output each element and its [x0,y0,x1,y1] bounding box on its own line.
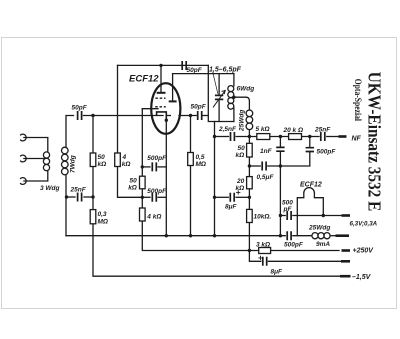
svg-text:kΩ: kΩ [98,161,107,168]
svg-text:3 kΩ: 3 kΩ [256,242,270,249]
svg-text:8μF: 8μF [271,269,284,276]
svg-text:50pF: 50pF [187,67,203,74]
svg-text:5 kΩ: 5 kΩ [256,126,270,133]
svg-text:kΩ: kΩ [122,161,131,168]
svg-text:kΩ: kΩ [236,152,245,159]
svg-text:25Wdg: 25Wdg [239,110,246,132]
svg-text:+: + [258,253,263,263]
svg-text:25nF: 25nF [70,187,87,194]
svg-text:500pF: 500pF [147,188,167,195]
svg-text:+: + [236,187,241,197]
svg-text:25Wdg: 25Wdg [308,225,330,232]
svg-text:7Wdg: 7Wdg [70,155,77,173]
svg-text:UKW-Einsatz 3532 E: UKW-Einsatz 3532 E [364,72,384,212]
svg-text:0,5: 0,5 [196,154,205,161]
svg-text:50: 50 [130,178,138,185]
svg-text:ECF12: ECF12 [300,182,322,189]
svg-text:kΩ: kΩ [128,185,137,192]
svg-text:25nF: 25nF [314,127,331,134]
svg-text:1,5–6,5pF: 1,5–6,5pF [209,67,242,74]
svg-text:6Wdg: 6Wdg [237,86,255,93]
svg-text:+250V: +250V [353,248,375,255]
svg-text:MΩ: MΩ [196,161,207,168]
svg-text:500pF: 500pF [284,242,304,249]
svg-text:500pF: 500pF [317,149,337,156]
svg-text:8μF: 8μF [225,204,238,211]
svg-text:10kΩ.: 10kΩ. [254,214,272,221]
svg-text:–1,5V: –1,5V [352,274,372,281]
svg-text:50pF: 50pF [72,105,88,112]
svg-text:4: 4 [122,154,127,161]
svg-text:9mA: 9mA [316,241,330,248]
svg-text:50: 50 [238,145,246,152]
svg-text:pF: pF [283,206,293,213]
svg-text:0,3: 0,3 [98,211,107,218]
svg-text:2,5nF: 2,5nF [218,126,237,133]
svg-text:500pF: 500pF [147,155,167,162]
svg-text:NF: NF [352,136,362,143]
svg-text:1nF: 1nF [260,148,273,155]
svg-text:20 k Ω: 20 k Ω [283,127,304,134]
svg-text:4 kΩ: 4 kΩ [146,214,161,221]
svg-text:MΩ: MΩ [98,219,109,226]
svg-text:50: 50 [98,154,106,161]
svg-text:20: 20 [236,178,245,185]
svg-text:3 Wdg: 3 Wdg [40,185,60,192]
svg-text:50pF: 50pF [191,104,207,111]
svg-text:ECF12: ECF12 [129,74,159,85]
svg-text:Opta-Spezial: Opta-Spezial [352,79,362,121]
svg-text:6,3V;0,3A: 6,3V;0,3A [350,221,378,228]
svg-text:0,5μF: 0,5μF [257,174,275,181]
